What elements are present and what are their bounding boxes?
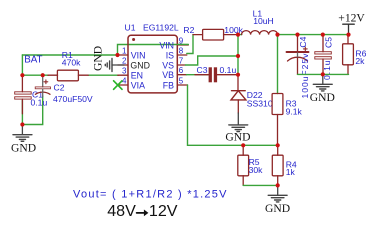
svg-text:2: 2 [122, 57, 127, 66]
pin 4 VIA left no-connect X [118, 84, 128, 86]
capacitor C5 [315, 35, 332, 75]
wire R5 R4 bottoms [243, 184, 278, 186]
svg-text:GND: GND [265, 202, 290, 215]
wire +12V rail [278, 34, 349, 36]
pin 9 VIN right [177, 44, 188, 46]
svg-text:100uF25v: 100uF25v [300, 53, 310, 99]
junction FB R4 [276, 143, 280, 147]
wire pin7 VS to SW node [185, 56, 238, 65]
svg-text:10uH: 10uH [253, 16, 274, 26]
pin 7 VS right [177, 64, 185, 66]
pin 6 VB right [177, 74, 186, 76]
capacitor C2 polarized [35, 75, 50, 96]
svg-text:5: 5 [179, 77, 184, 86]
svg-text:GND: GND [91, 46, 104, 71]
svg-text:VIN: VIN [159, 40, 174, 50]
resistor R1 [48, 70, 88, 81]
junction output ground C5 [321, 72, 325, 76]
svg-text:100k: 100k [224, 25, 243, 35]
capacitor C3 [187, 67, 239, 82]
wire R3 top [277, 35, 279, 94]
ground symbol at pin 2 (sideways) [105, 59, 124, 72]
junction SW node R2/L1 [236, 33, 240, 37]
junction BAT/C2 [41, 73, 45, 77]
junction SW node C3 [236, 73, 240, 77]
svg-text:VIA: VIA [131, 80, 145, 90]
svg-text:VIN: VIN [131, 50, 146, 60]
pin 5 FB right [177, 84, 187, 86]
svg-text:U1: U1 [125, 23, 136, 33]
svg-text:48V: 48V [107, 202, 136, 220]
svg-text:0.1u: 0.1u [322, 59, 332, 80]
svg-text:GND: GND [225, 131, 250, 144]
wire over-chip VIN to pin9 [118, 45, 189, 56]
pin 8 IS right [177, 54, 187, 56]
junction rail C5 [321, 33, 325, 37]
ground GND right [313, 74, 332, 91]
svg-text:EN: EN [131, 70, 143, 80]
pin 2 GND left [118, 64, 128, 66]
junction rail R6 [346, 33, 350, 37]
junction R4 ground [276, 183, 280, 187]
junction rail R3 [275, 33, 279, 37]
svg-text:EG1192L: EG1192L [143, 23, 179, 33]
capacitor C1 [15, 75, 32, 114]
wire C1 bottom to GND junction [21, 101, 23, 125]
svg-text:GND: GND [11, 142, 36, 155]
IC U1 EG1192L [128, 35, 177, 93]
svg-text:VB: VB [162, 70, 174, 80]
svg-text:12V: 12V [149, 202, 178, 220]
junction FB R5 [241, 143, 245, 147]
wire C2 bottom to GND junction [22, 96, 42, 125]
resistor R4 [272, 145, 283, 185]
svg-text:SS310: SS310 [247, 98, 273, 108]
svg-text:IS: IS [166, 50, 174, 60]
svg-text:+12V: +12V [338, 11, 365, 24]
svg-text:VS: VS [162, 60, 174, 70]
wire pin8 to R2 left [187, 35, 193, 54]
junction BAT/C1 [20, 73, 24, 77]
junction SW node VS [236, 54, 240, 58]
svg-text:1: 1 [122, 47, 127, 56]
pin 1 VIN left [118, 54, 128, 56]
wire R1 to EN pin3 [88, 74, 118, 76]
wire overlay on pin 9 stub [177, 44, 188, 46]
svg-text:470uF50V: 470uF50V [53, 94, 93, 104]
resistor R3 [272, 94, 283, 146]
svg-text:9.1k: 9.1k [286, 107, 303, 117]
svg-text:2k: 2k [355, 56, 365, 66]
wire FB pin5 down and across [188, 85, 278, 145]
svg-text:C2: C2 [54, 82, 65, 92]
svg-text:3: 3 [122, 67, 127, 76]
junction BAT/pin1 [115, 53, 119, 57]
svg-text:C4: C4 [298, 36, 308, 47]
junction rail C4 [295, 33, 299, 37]
svg-text:1k: 1k [286, 167, 296, 177]
junction C1/C2 ground [20, 122, 24, 126]
svg-text:GND: GND [310, 91, 335, 104]
pin 3 EN left [118, 74, 128, 76]
resistor R2 [193, 29, 238, 40]
wire SW vertical [237, 35, 239, 75]
svg-text:8: 8 [179, 47, 184, 56]
svg-text:0.1u: 0.1u [31, 98, 48, 108]
svg-text:470k: 470k [62, 58, 81, 68]
capacitor C4 polarized [297, 35, 299, 52]
svg-text:BAT: BAT [24, 54, 42, 65]
wire row y75 BAT to R1 [22, 74, 48, 76]
diode D22 SS310 [231, 75, 246, 113]
resistor R6 [343, 35, 354, 75]
svg-text:30k: 30k [249, 165, 264, 175]
svg-text:FB: FB [163, 80, 174, 90]
svg-text:0.1u: 0.1u [220, 65, 237, 75]
svg-text:7: 7 [179, 57, 184, 66]
svg-text:Vout= ( 1+R1/R2 ) *1.25V: Vout= ( 1+R1/R2 ) *1.25V [73, 188, 228, 200]
svg-text:6: 6 [179, 66, 184, 75]
wire bottom right rail [298, 73, 349, 75]
power flag +12V [343, 24, 354, 34]
wire BAT vertical left [21, 55, 23, 75]
svg-text:C5: C5 [324, 37, 334, 48]
ground GND left [13, 125, 32, 142]
ground GND below R4 [268, 185, 287, 202]
svg-text:GND: GND [130, 60, 150, 70]
wire BAT horizontal top [22, 54, 118, 56]
svg-text:R2: R2 [183, 25, 194, 35]
inductor L1 [238, 34, 242, 36]
ground GND below diode [229, 113, 248, 132]
resistor R5 [238, 145, 249, 185]
svg-text:C3: C3 [197, 65, 208, 75]
